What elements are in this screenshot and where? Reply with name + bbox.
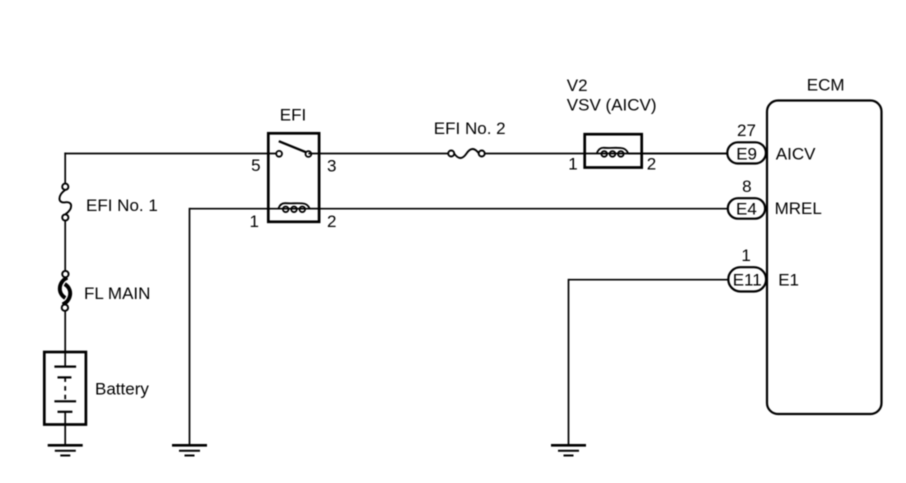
- wire: battery negative to ground: [64, 412, 66, 445]
- wire: top horizontal from battery branch to EFI relay pin 5: [64, 153, 279, 155]
- svg-text:E1: E1: [778, 271, 799, 290]
- svg-text:EFI No. 1: EFI No. 1: [86, 196, 158, 215]
- wire: E1 ground branch horizontal: [569, 279, 729, 281]
- wire: relay pin 2 to ECM E4: [310, 208, 728, 210]
- wire: relay pin 3 to fuse EFI No.2: [308, 153, 448, 155]
- ground: battery: [48, 445, 83, 455]
- VSV coil: [597, 148, 628, 157]
- svg-text:2: 2: [327, 212, 336, 231]
- svg-text:2: 2: [647, 155, 656, 174]
- relay EFI box: [268, 133, 319, 222]
- svg-text:E11: E11: [733, 271, 762, 290]
- svg-text:1: 1: [568, 155, 577, 174]
- fuse EFI No.1: [59, 184, 71, 221]
- svg-text:E4: E4: [736, 200, 757, 219]
- svg-text:3: 3: [327, 156, 336, 175]
- svg-text:AICV: AICV: [776, 144, 816, 163]
- svg-text:EFI: EFI: [280, 105, 306, 124]
- svg-text:EFI No. 2: EFI No. 2: [434, 119, 506, 138]
- svg-text:VSV (AICV): VSV (AICV): [567, 96, 657, 115]
- wire: vertical between EFI No.1 fuse and FL MAIN: [64, 221, 66, 271]
- wire: VSV pin 2 to ECM E9: [628, 153, 727, 155]
- fusible link FL MAIN: [60, 271, 70, 311]
- ground: E1: [551, 445, 586, 455]
- connector E4: [728, 198, 765, 219]
- connector E9: [727, 142, 766, 163]
- ground: relay coil: [172, 445, 207, 455]
- VSV V2 box: [585, 134, 642, 167]
- wire: battery positive vertical segment above EFI No.1 fuse: [64, 153, 66, 185]
- svg-text:1: 1: [250, 212, 259, 231]
- svg-text:MREL: MREL: [775, 199, 822, 218]
- svg-text:V2: V2: [567, 76, 588, 95]
- relay switch contact (pin 3): [306, 151, 312, 157]
- svg-text:1: 1: [741, 246, 750, 265]
- wire: vertical E1 ground branch: [568, 279, 570, 445]
- svg-text:E9: E9: [736, 144, 757, 163]
- ECM box: [767, 101, 882, 415]
- fuse EFI No.2: [448, 149, 485, 158]
- connector E11: [728, 267, 766, 291]
- svg-text:FL MAIN: FL MAIN: [84, 284, 150, 303]
- svg-text:27: 27: [737, 121, 756, 140]
- relay coil: [278, 203, 309, 212]
- wire: relay pin 1 to ground branch: [190, 208, 320, 210]
- svg-text:5: 5: [251, 156, 260, 175]
- svg-text:ECM: ECM: [807, 75, 845, 94]
- svg-text:8: 8: [742, 177, 751, 196]
- relay switch contact (pin 5): [276, 151, 282, 157]
- wire: fuse EFI No.2 to VSV pin 1: [485, 153, 728, 155]
- wire: vertical relay ground branch: [189, 208, 191, 445]
- wire: vertical from FL MAIN to battery plate: [64, 311, 66, 366]
- svg-text:Battery: Battery: [95, 380, 149, 399]
- battery: [44, 352, 86, 425]
- relay switch blade: [279, 141, 306, 152]
